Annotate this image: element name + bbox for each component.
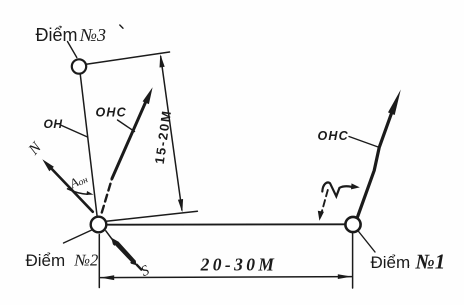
leader line label point2 — [64, 230, 93, 243]
point circle N1 — [345, 217, 360, 232]
stray tick mark top right of label 3 — [120, 25, 123, 28]
extension line below point2 — [98, 235, 100, 288]
north arrow shaft at point2 — [49, 166, 93, 212]
leader line label point3 — [68, 42, 77, 58]
OHC arrow solid shaft at point2 — [112, 99, 147, 179]
point circle N3 — [72, 59, 86, 73]
svg-text:№1: №1 — [415, 249, 446, 273]
point circle N2 — [91, 217, 107, 233]
arrowhead angle arc A-oh — [86, 191, 93, 195]
svg-text:N: N — [25, 138, 46, 159]
svg-text:ОНС: ОНС — [96, 106, 127, 120]
extension line below point1 — [352, 232, 354, 288]
svg-text:ОН: ОН — [44, 117, 63, 131]
dashed angle reference line at point1 — [321, 190, 328, 217]
magnetic south needle blade — [111, 238, 136, 266]
arrowhead dimension 15-20m top — [160, 54, 165, 67]
dimension line 20-30m — [100, 277, 351, 278]
svg-text:№3: №3 — [79, 25, 106, 45]
leader line label OH — [61, 125, 88, 137]
faint dot after Diem 1 — [408, 265, 410, 267]
arrowhead north arrow — [42, 159, 54, 171]
magnetic south needle tail tick — [137, 265, 142, 270]
arrowhead OHC right — [388, 90, 401, 116]
arrowhead OHC left — [143, 87, 153, 104]
angle arc A-oh at point2 — [68, 189, 88, 194]
leader line label OHC left — [118, 120, 135, 132]
wire line point3 to point2 — [80, 74, 97, 217]
svg-text:ОНС: ОНС — [318, 129, 349, 143]
leader line label OHC right — [349, 137, 380, 148]
leader line label point1 — [358, 231, 375, 253]
arrowhead dimension 15-20m bottom — [178, 199, 183, 212]
svg-text:Điểm: Điểm — [36, 25, 78, 45]
OHC arrow dashed shaft at point2 — [102, 179, 112, 213]
dimension line 15-20m — [161, 57, 182, 211]
arrowhead dimension 20-30m right — [338, 274, 352, 279]
wire baseline point2 to point1 — [106, 223, 346, 225]
arrowhead dimension 20-30m left — [100, 275, 114, 280]
arrowhead dashed angle line bottom — [318, 211, 324, 221]
angle arc squiggle at point1 — [322, 182, 351, 196]
svg-text:20-30М: 20-30М — [200, 254, 278, 274]
svg-text:№2: №2 — [74, 250, 99, 269]
svg-text:Điểm: Điểm — [371, 253, 411, 272]
OHC arrow shaft at point1 — [357, 113, 391, 218]
wire line point3 to dimension top — [86, 52, 169, 64]
wire short reference line from point2 — [106, 211, 197, 221]
needle blade white stripe — [115, 246, 131, 263]
svg-text:15-20М: 15-20М — [152, 108, 174, 164]
svg-text:Điểm: Điểm — [26, 251, 66, 270]
arrowhead angle squiggle right — [351, 183, 360, 189]
magnetic south needle thin lead — [106, 231, 115, 243]
